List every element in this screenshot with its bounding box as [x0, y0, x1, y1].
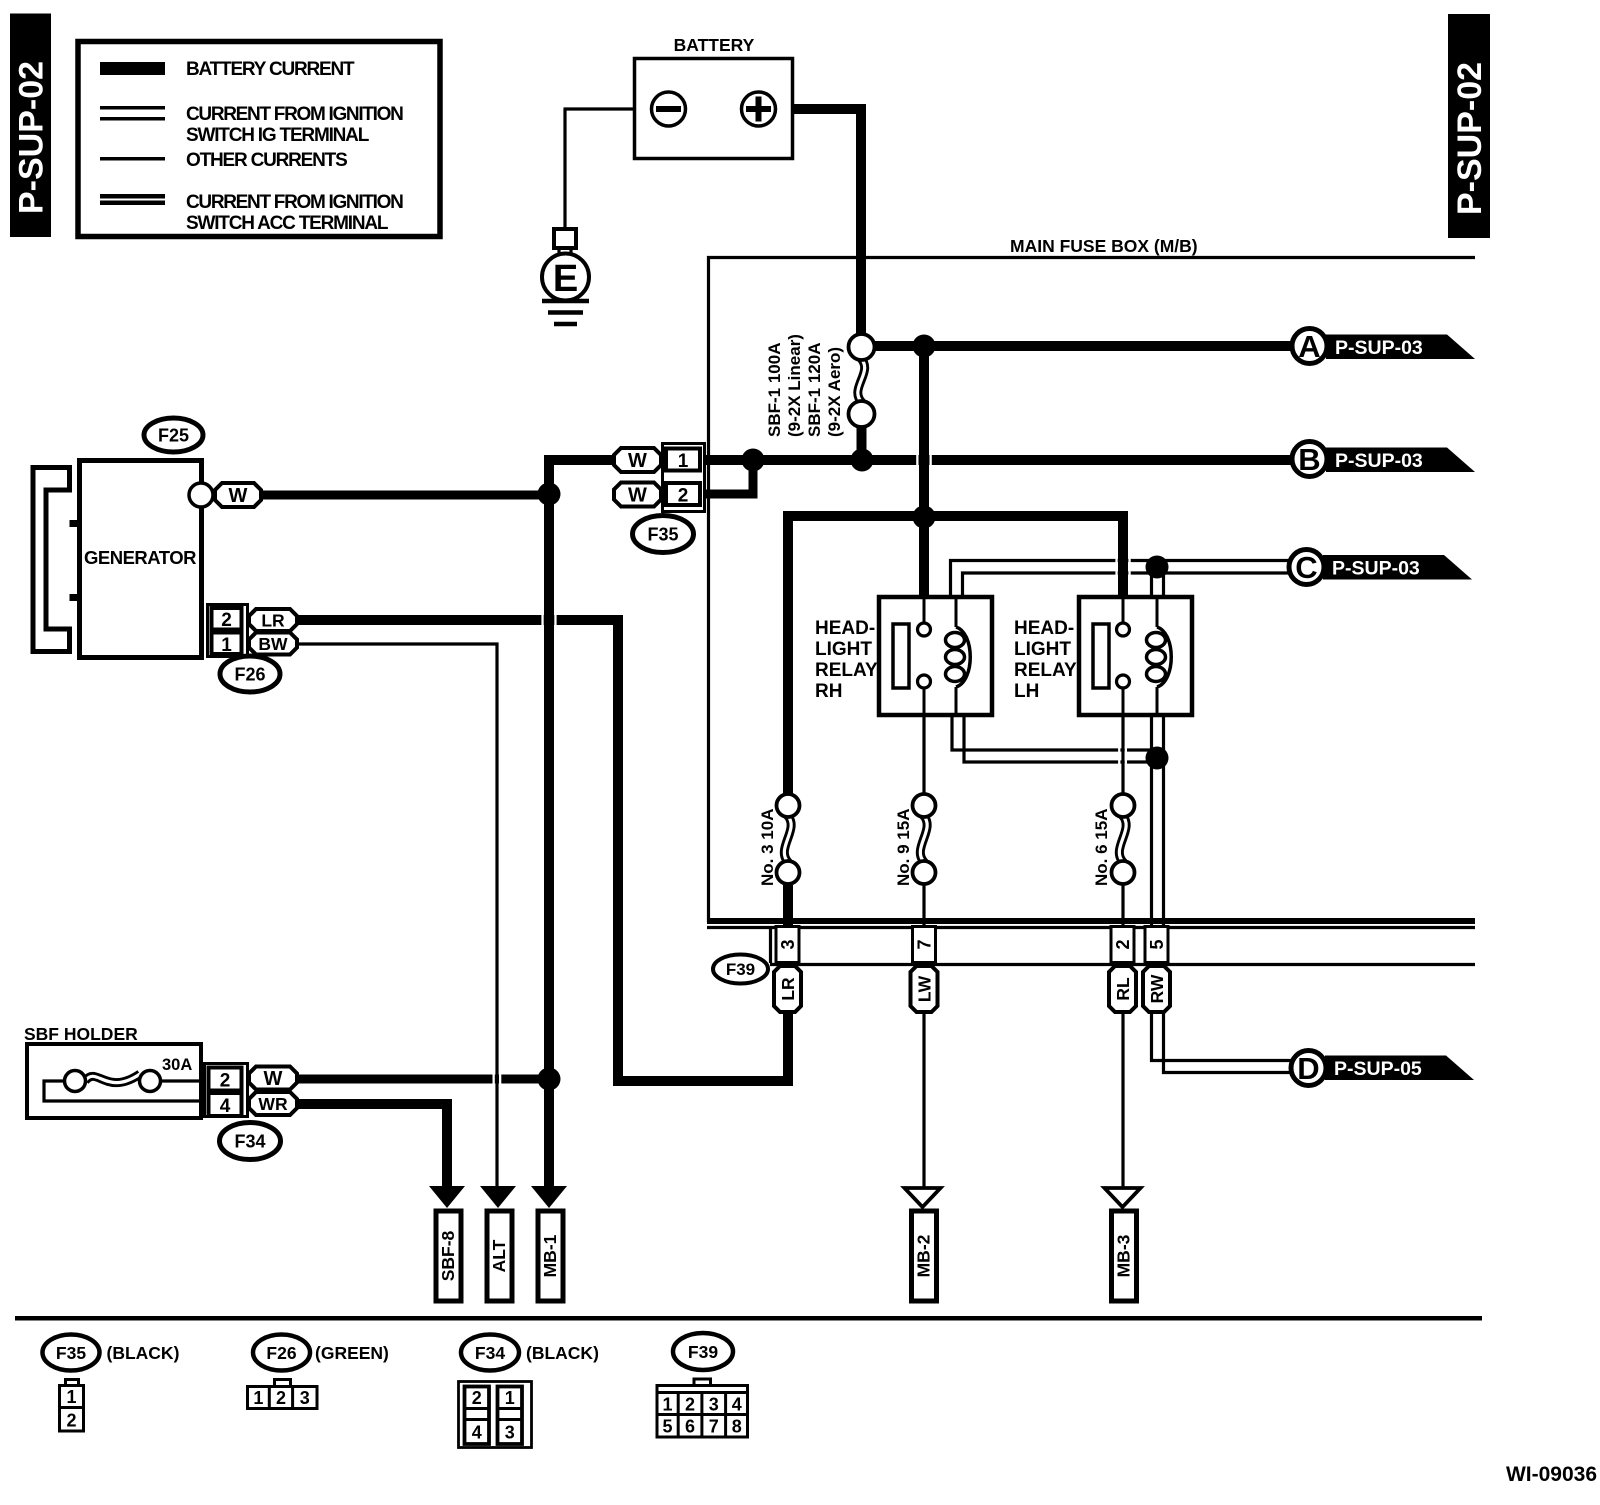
svg-text:P-SUP-03: P-SUP-03: [1335, 450, 1423, 472]
svg-text:2: 2: [276, 1388, 286, 1408]
svg-text:D: D: [1297, 1051, 1319, 1086]
svg-text:(9-2X Linear): (9-2X Linear): [785, 334, 804, 437]
svg-text:WI-09036: WI-09036: [1506, 1463, 1597, 1486]
svg-text:1: 1: [505, 1388, 515, 1408]
svg-text:1: 1: [253, 1388, 263, 1408]
svg-text:LH: LH: [1014, 681, 1039, 702]
svg-text:P-SUP-02: P-SUP-02: [1451, 62, 1489, 215]
svg-text:MB-3: MB-3: [1114, 1234, 1134, 1277]
svg-text:SBF HOLDER: SBF HOLDER: [24, 1024, 138, 1044]
svg-text:E: E: [553, 258, 578, 300]
svg-text:W: W: [628, 450, 647, 472]
svg-text:LR: LR: [261, 610, 285, 630]
svg-text:OTHER CURRENTS: OTHER CURRENTS: [186, 150, 347, 171]
svg-text:2: 2: [221, 610, 232, 631]
svg-text:SWITCH ACC TERMINAL: SWITCH ACC TERMINAL: [186, 213, 389, 234]
svg-text:RH: RH: [815, 681, 842, 702]
svg-text:MAIN FUSE BOX (M/B): MAIN FUSE BOX (M/B): [1010, 236, 1198, 256]
svg-text:2: 2: [472, 1388, 482, 1408]
svg-text:F34: F34: [234, 1131, 265, 1151]
svg-text:(9-2X Aero): (9-2X Aero): [825, 347, 844, 437]
svg-text:BATTERY: BATTERY: [674, 35, 755, 55]
svg-text:3: 3: [300, 1388, 310, 1408]
svg-text:RL: RL: [1113, 977, 1133, 1001]
svg-text:2: 2: [1113, 939, 1133, 949]
svg-text:8: 8: [732, 1417, 742, 1437]
svg-text:30A: 30A: [162, 1056, 192, 1074]
svg-text:C: C: [1295, 550, 1317, 585]
svg-text:1: 1: [678, 451, 689, 472]
svg-text:P-SUP-05: P-SUP-05: [1334, 1058, 1422, 1080]
svg-text:CURRENT FROM IGNITION: CURRENT FROM IGNITION: [186, 104, 403, 125]
svg-text:F35: F35: [56, 1343, 86, 1363]
svg-text:P-SUP-03: P-SUP-03: [1332, 558, 1420, 580]
svg-text:No. 3 10A: No. 3 10A: [758, 809, 777, 886]
svg-text:2: 2: [66, 1411, 76, 1431]
svg-text:2: 2: [220, 1071, 231, 1092]
svg-text:HEAD-: HEAD-: [815, 618, 875, 639]
svg-text:2: 2: [678, 486, 689, 507]
svg-text:LW: LW: [914, 975, 934, 1002]
svg-text:No. 6 15A: No. 6 15A: [1092, 809, 1111, 886]
svg-text:2: 2: [685, 1395, 695, 1415]
svg-text:1: 1: [66, 1387, 76, 1407]
svg-text:(GREEN): (GREEN): [315, 1343, 389, 1363]
svg-text:SBF-1 120A: SBF-1 120A: [805, 343, 824, 437]
svg-text:GENERATOR: GENERATOR: [84, 547, 196, 568]
svg-text:3: 3: [709, 1395, 719, 1415]
svg-text:SWITCH IG TERMINAL: SWITCH IG TERMINAL: [186, 125, 370, 146]
svg-text:HEAD-: HEAD-: [1014, 618, 1074, 639]
svg-text:SBF-1 100A: SBF-1 100A: [765, 343, 784, 437]
svg-text:MB-2: MB-2: [914, 1234, 934, 1277]
svg-text:CURRENT FROM IGNITION: CURRENT FROM IGNITION: [186, 192, 403, 213]
svg-text:B: B: [1298, 442, 1320, 477]
svg-text:LR: LR: [778, 977, 798, 1001]
svg-text:(BLACK): (BLACK): [107, 1343, 180, 1363]
svg-text:3: 3: [778, 939, 798, 949]
svg-text:P-SUP-03: P-SUP-03: [1335, 337, 1423, 359]
svg-text:BATTERY CURRENT: BATTERY CURRENT: [186, 59, 355, 80]
svg-text:BW: BW: [258, 634, 288, 654]
svg-text:W: W: [628, 485, 647, 507]
svg-text:6: 6: [685, 1417, 695, 1437]
svg-text:7: 7: [915, 939, 935, 949]
svg-text:WR: WR: [258, 1094, 288, 1114]
svg-text:LIGHT: LIGHT: [1014, 639, 1071, 660]
svg-text:W: W: [264, 1068, 283, 1090]
svg-text:SBF-8: SBF-8: [438, 1230, 458, 1281]
svg-text:No. 9 15A: No. 9 15A: [894, 809, 913, 886]
svg-text:W: W: [229, 485, 248, 507]
svg-text:P-SUP-02: P-SUP-02: [13, 61, 51, 214]
svg-text:4: 4: [732, 1395, 742, 1415]
svg-text:MB-1: MB-1: [540, 1234, 560, 1277]
svg-text:7: 7: [709, 1417, 719, 1437]
svg-text:1: 1: [221, 635, 232, 656]
svg-text:F39: F39: [726, 960, 755, 979]
svg-text:1: 1: [662, 1395, 672, 1415]
svg-text:A: A: [1298, 329, 1320, 364]
svg-text:RELAY: RELAY: [1014, 660, 1077, 681]
svg-text:F35: F35: [647, 524, 678, 544]
svg-text:LIGHT: LIGHT: [815, 639, 872, 660]
svg-text:F26: F26: [266, 1343, 296, 1363]
svg-text:F39: F39: [688, 1342, 718, 1362]
svg-text:(BLACK): (BLACK): [526, 1343, 599, 1363]
svg-text:ALT: ALT: [489, 1239, 509, 1272]
svg-text:4: 4: [472, 1423, 482, 1443]
svg-text:4: 4: [220, 1096, 231, 1117]
svg-text:F34: F34: [475, 1343, 505, 1363]
svg-text:5: 5: [662, 1417, 672, 1437]
svg-text:F25: F25: [158, 425, 189, 445]
svg-text:3: 3: [505, 1423, 515, 1443]
svg-text:RW: RW: [1147, 974, 1167, 1003]
svg-text:5: 5: [1147, 939, 1167, 949]
svg-text:F26: F26: [234, 664, 265, 684]
svg-text:RELAY: RELAY: [815, 660, 878, 681]
